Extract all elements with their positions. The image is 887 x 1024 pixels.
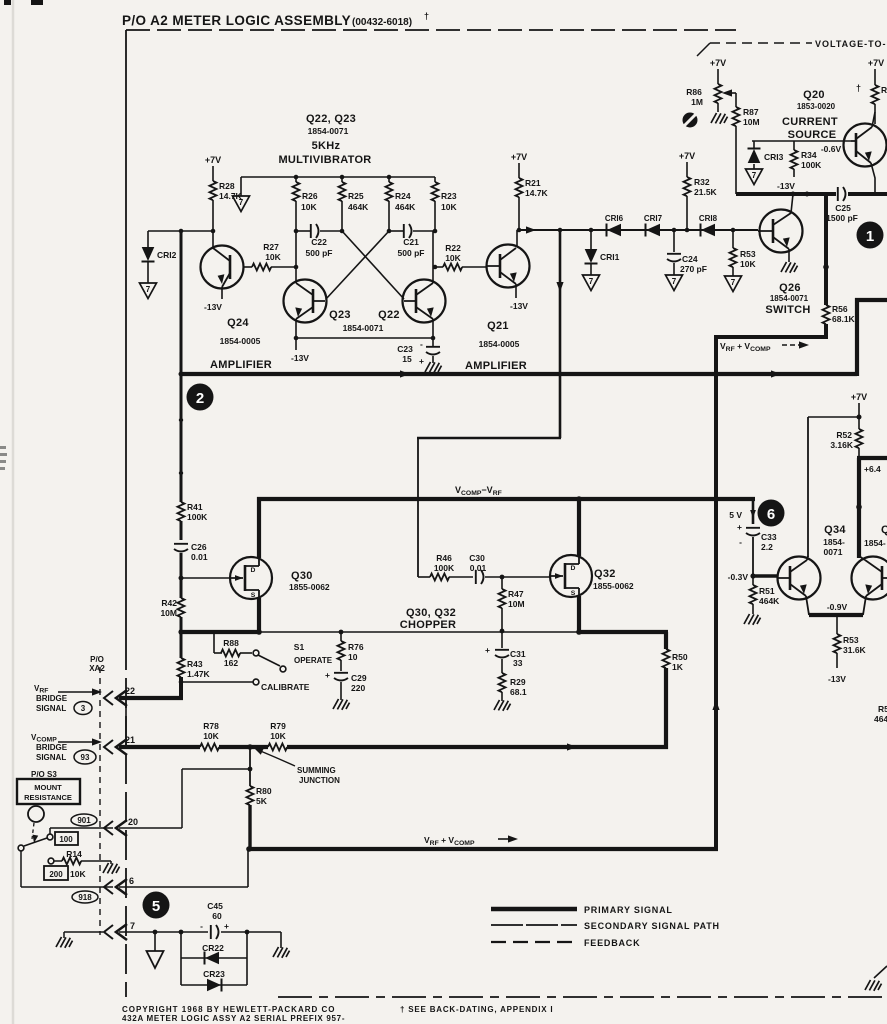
svg-text:1.47K: 1.47K [187, 669, 211, 679]
svg-text:10K: 10K [441, 202, 457, 212]
svg-text:D: D [571, 565, 576, 572]
wire: pin22 to trunk (primary) [119, 696, 183, 700]
wire: secondary corner to chopper input [417, 437, 561, 440]
svg-text:R26: R26 [302, 191, 318, 201]
svg-text:R53: R53 [740, 249, 756, 259]
svg-text:270 pF: 270 pF [680, 264, 707, 274]
100 box [55, 832, 78, 845]
diode CRI6 [607, 224, 622, 237]
transistor Q35 (partial at edge) [852, 556, 887, 615]
svg-text:R: R [881, 85, 887, 95]
diode CRI2 [147, 231, 149, 247]
svg-text:C21: C21 [403, 237, 419, 247]
svg-text:CRI6: CRI6 [605, 214, 624, 223]
ground (R29) [494, 700, 511, 711]
svg-text:-0.9V: -0.9V [827, 602, 848, 612]
resistor R56 [823, 305, 830, 324]
ground triangle 7 (C24) [666, 275, 683, 291]
svg-text:C24: C24 [682, 254, 698, 264]
svg-text:R22: R22 [445, 243, 461, 253]
svg-text:+7V: +7V [868, 58, 884, 68]
svg-text:CR23: CR23 [203, 969, 225, 979]
svg-text:33: 33 [513, 658, 523, 668]
node junction dots [179, 229, 184, 234]
svg-text:R50: R50 [672, 652, 688, 662]
arrow up on feedback line [712, 700, 719, 710]
svg-text:0.01: 0.01 [470, 563, 487, 573]
svg-text:1854-: 1854- [864, 538, 886, 548]
svg-text:S: S [571, 590, 576, 597]
oval (918) [72, 891, 98, 903]
svg-text:Q24: Q24 [227, 317, 249, 329]
svg-text:COPYRIGHT 1968 BY HEWLETT-PACK: COPYRIGHT 1968 BY HEWLETT-PACKARD CO [122, 1005, 336, 1014]
wire: corner to x=716 [714, 335, 828, 339]
svg-text:Q20: Q20 [803, 89, 825, 101]
capacitor C29 [334, 673, 348, 681]
svg-text:C30: C30 [469, 553, 485, 563]
transistor Q23 [284, 231, 327, 338]
transistor Q24 [201, 231, 244, 299]
svg-text:SIGNAL: SIGNAL [36, 753, 66, 762]
svg-text:21: 21 [125, 735, 135, 745]
diode CRI3 [753, 141, 755, 149]
signal arrow into pin 22 [58, 691, 92, 693]
svg-text:C26: C26 [191, 542, 207, 552]
svg-text:R76: R76 [348, 642, 364, 652]
transistor Q21 [486, 230, 530, 298]
svg-text:21.5K: 21.5K [694, 187, 718, 197]
svg-text:1854-0071: 1854-0071 [343, 323, 384, 333]
wire: base row y=141 [752, 140, 851, 142]
capacitor C25 [838, 187, 846, 201]
svg-text:R23: R23 [441, 191, 457, 201]
svg-text:CURRENT: CURRENT [782, 116, 838, 128]
connector dashed line [99, 667, 101, 935]
svg-text:1855-0062: 1855-0062 [593, 581, 634, 591]
wire: VCOMP-VRF bus (primary) [257, 497, 755, 501]
svg-text:162: 162 [224, 658, 238, 668]
svg-text:464: 464 [874, 714, 887, 724]
svg-text:Q22: Q22 [378, 309, 400, 321]
svg-text:Q30, Q32: Q30, Q32 [406, 607, 456, 619]
svg-text:+: + [419, 356, 424, 366]
wire: Q34 base (thick) [752, 574, 778, 577]
resistor R22 [433, 265, 438, 270]
resistor R76 [340, 632, 342, 641]
wire: down to R50 (primary) [664, 632, 668, 649]
wire: thick +6.4 rail from right [857, 456, 887, 460]
pin 6 chevrons [104, 879, 127, 895]
wire: pin20 [50, 827, 113, 829]
svg-text:R80: R80 [256, 786, 272, 796]
svg-text:CHOPPER: CHOPPER [400, 619, 457, 631]
switch S3 wiper [18, 845, 24, 851]
svg-text:5: 5 [152, 898, 160, 915]
svg-text:10K: 10K [265, 252, 281, 262]
svg-text:R24: R24 [395, 191, 411, 201]
potentiometer S3 circle [28, 806, 44, 822]
svg-text:5KHz: 5KHz [312, 140, 341, 152]
resistor R46 [418, 576, 430, 578]
svg-text:Q22, Q23: Q22, Q23 [306, 113, 356, 125]
wire: pin 7 row [119, 931, 208, 933]
svg-text:31.6K: 31.6K [843, 645, 867, 655]
svg-text:100K: 100K [801, 160, 822, 170]
svg-text:R34: R34 [801, 150, 817, 160]
pin 7 chevrons [104, 924, 127, 940]
svg-text:-13V: -13V [777, 181, 795, 191]
svg-text:S1: S1 [294, 642, 305, 652]
svg-text:R5: R5 [878, 704, 887, 714]
svg-text:6: 6 [767, 506, 775, 523]
svg-text:10M: 10M [743, 117, 760, 127]
svg-text:R42: R42 [161, 598, 177, 608]
svg-text:+7V: +7V [679, 151, 695, 161]
svg-text:1854-0005: 1854-0005 [220, 336, 261, 346]
svg-text:-: - [200, 921, 203, 931]
svg-text:R43: R43 [187, 659, 203, 669]
svg-text:MOUNT: MOUNT [34, 783, 62, 792]
pin 21 chevrons [104, 739, 127, 755]
resistor R27 [243, 266, 252, 268]
svg-text:-13V: -13V [291, 353, 309, 363]
CR22/CR23 loop [180, 932, 182, 985]
resistor R23 [434, 177, 436, 182]
svg-text:C45: C45 [207, 901, 223, 911]
multivibrator emitter bus wire [296, 337, 433, 339]
resistor R53 (10K) [732, 230, 734, 248]
ground (C29) [333, 699, 350, 710]
svg-text:MULTIVIBRATOR: MULTIVIBRATOR [278, 154, 371, 166]
cross-coupling wire D1 [326, 231, 389, 299]
200 box [44, 866, 68, 880]
svg-text:R41: R41 [187, 502, 203, 512]
svg-text:10K: 10K [740, 259, 756, 269]
svg-text:FEEDBACK: FEEDBACK [584, 938, 640, 948]
capacitor C21 [389, 230, 404, 232]
wire: VRF+VCOMP return (primary) [248, 847, 718, 851]
resistor R42 [178, 598, 185, 617]
resistor R41 [178, 502, 185, 521]
svg-text:CALIBRATE: CALIBRATE [261, 682, 310, 692]
resistor R53 (31.6K) [836, 615, 838, 634]
svg-text:†: † [856, 83, 861, 93]
svg-text:100K: 100K [187, 512, 208, 522]
svg-text:R78: R78 [203, 721, 219, 731]
assembly border bottom dashed [278, 996, 887, 998]
svg-text:14.7K: 14.7K [525, 188, 549, 198]
diode CR22 [181, 957, 247, 959]
svg-text:5K: 5K [256, 796, 268, 806]
scan artifact: left edge bars [0, 446, 7, 470]
VOLTAGE-TO banner dashed line [710, 42, 812, 44]
svg-text:C23: C23 [397, 344, 413, 354]
svg-text:0071: 0071 [824, 547, 843, 557]
wire: drop from VCOMP-VRF bus [752, 497, 755, 524]
svg-text:+7V: +7V [851, 392, 867, 402]
top rail wire [241, 176, 435, 178]
svg-text:C25: C25 [835, 203, 851, 213]
ground (Q26 emitter) [781, 262, 798, 273]
svg-text:R25: R25 [348, 191, 364, 201]
svg-text:R27: R27 [263, 242, 279, 252]
svg-text:22: 22 [125, 686, 135, 696]
svg-text:+7V: +7V [710, 58, 726, 68]
svg-text:+6.4: +6.4 [864, 464, 881, 474]
pin 22 chevrons [104, 690, 127, 706]
numbered node 6 [758, 500, 785, 527]
wire: wiper to pin 6 [20, 851, 22, 887]
resistor R21 [516, 178, 523, 197]
ground (pin 7 right) [280, 932, 282, 948]
wire: gate [181, 577, 230, 579]
svg-text:-0.6V: -0.6V [821, 144, 842, 154]
assembly border left [125, 30, 127, 640]
svg-text:1500 pF: 1500 pF [826, 213, 858, 223]
svg-text:7: 7 [130, 921, 135, 931]
pin 20 chevrons [104, 820, 127, 836]
signal arrow into pin 21 [58, 741, 92, 743]
svg-text:R56: R56 [832, 304, 848, 314]
svg-text:901: 901 [77, 816, 91, 825]
diode CRI1 [590, 230, 592, 249]
svg-text:C29: C29 [351, 673, 367, 683]
resistor R34 [793, 141, 795, 150]
svg-text:10M: 10M [508, 599, 525, 609]
ground triangle 7 (CRI3) [746, 169, 763, 185]
svg-text:SOURCE: SOURCE [788, 129, 837, 141]
svg-text:R52: R52 [836, 430, 852, 440]
transistor Q26 [758, 194, 803, 262]
FET Q30 [230, 557, 272, 599]
capacitor C45 [211, 925, 219, 939]
svg-text:-13V: -13V [510, 301, 528, 311]
svg-text:SIGNAL: SIGNAL [36, 704, 66, 713]
svg-text:+: + [737, 522, 742, 532]
numbered node 2 [187, 384, 214, 411]
capacitor C22 [296, 230, 311, 232]
svg-text:1853-0020: 1853-0020 [797, 102, 836, 111]
svg-text:SWITCH: SWITCH [765, 304, 810, 316]
VOLTAGE-TO banner leader [697, 43, 710, 56]
svg-text:CRI1: CRI1 [600, 252, 620, 262]
screwdriver adjust symbol [683, 113, 698, 128]
svg-text:0.01: 0.01 [191, 552, 208, 562]
ground triangle 7 (CRI2) [140, 283, 157, 299]
legend primary sample [491, 907, 577, 911]
svg-text:(00432-6018): (00432-6018) [352, 17, 412, 28]
wire [212, 200, 214, 231]
svg-text:500 pF: 500 pF [306, 248, 333, 258]
numbered node 1 [857, 222, 884, 249]
scan artifact: page edge line [12, 0, 15, 1024]
diode CR23 [181, 984, 247, 986]
svg-text:Q26: Q26 [779, 282, 801, 294]
svg-text:CRI2: CRI2 [157, 250, 177, 260]
svg-text:+: + [325, 670, 330, 680]
resistor R88 [213, 632, 215, 653]
svg-text:R29: R29 [510, 677, 526, 687]
ground triangle 7 (multivibrator rail) [233, 196, 250, 212]
summing junction callout [258, 750, 295, 766]
svg-text:C22: C22 [311, 237, 327, 247]
svg-text:464K: 464K [348, 202, 369, 212]
svg-text:10M: 10M [160, 608, 177, 618]
svg-text:100: 100 [59, 835, 73, 844]
svg-text:10: 10 [348, 652, 358, 662]
FET Q32 [550, 555, 592, 597]
svg-text:-13V: -13V [828, 674, 846, 684]
svg-text:5 V: 5 V [729, 510, 742, 520]
svg-text:R32: R32 [694, 177, 710, 187]
wire: Q30 source (primary) [257, 598, 261, 634]
diode CRI8 [701, 224, 716, 237]
svg-text:100K: 100K [434, 563, 455, 573]
wire: pin 6 to feedback line [119, 886, 248, 888]
svg-text:1K: 1K [672, 662, 684, 672]
assembly border top dashed [126, 29, 736, 31]
svg-text:R88: R88 [223, 638, 239, 648]
mechanical linkage (dashed) [32, 823, 34, 839]
svg-text:2.2: 2.2 [761, 542, 773, 552]
svg-text:R79: R79 [270, 721, 286, 731]
resistor R47 [501, 577, 503, 589]
legend feedback sample [491, 941, 577, 943]
svg-text:R21: R21 [525, 178, 541, 188]
svg-text:SUMMING: SUMMING [297, 766, 336, 775]
transistor Q22 [403, 231, 446, 338]
svg-text:† SEE BACK-DATING, APPENDIX I: † SEE BACK-DATING, APPENDIX I [400, 1005, 553, 1014]
svg-text:+: + [224, 921, 229, 931]
R14 row: contact [48, 858, 54, 864]
svg-text:Q30: Q30 [291, 570, 313, 582]
wire: Q32 source (primary) [577, 596, 581, 634]
resistor R28 [210, 181, 217, 200]
svg-text:60: 60 [212, 911, 222, 921]
oval (93) [74, 750, 96, 764]
svg-text:1854-0005: 1854-0005 [479, 339, 520, 349]
MOUNT RESISTANCE box [17, 779, 80, 804]
oval (3) [74, 702, 92, 715]
resistor (right edge, partial) [872, 85, 879, 104]
svg-text:-: - [739, 537, 742, 547]
svg-text:+7V: +7V [511, 152, 527, 162]
svg-text:1: 1 [866, 228, 874, 245]
svg-text:10K: 10K [445, 253, 461, 263]
svg-text:3: 3 [81, 704, 86, 713]
potentiometer R86 [715, 84, 722, 103]
diode CRI7 [646, 224, 661, 237]
resistor R80 [249, 747, 251, 786]
resistor R51 [752, 576, 754, 585]
svg-text:200: 200 [49, 870, 63, 879]
wire: Q21 collector row to Q26 base [517, 229, 758, 231]
bottom right ground [874, 966, 887, 978]
svg-text:68.1: 68.1 [510, 687, 527, 697]
svg-text:R86: R86 [686, 87, 702, 97]
wire: long thick vertical x=716 [714, 335, 718, 851]
resistor R50 [663, 649, 670, 668]
resistor R24 [388, 177, 390, 182]
scan artifact: top corner marks [31, 0, 43, 5]
svg-text:464K: 464K [395, 202, 416, 212]
open triangle (pin 7) [154, 932, 156, 951]
-13V stub [295, 338, 297, 350]
calibrate contact [181, 681, 253, 683]
svg-text:AMPLIFIER: AMPLIFIER [465, 360, 527, 372]
svg-text:918: 918 [78, 893, 92, 902]
svg-text:Q21: Q21 [487, 320, 509, 332]
ground (R86 bottom) [711, 113, 728, 124]
capacitor C26 [174, 544, 188, 552]
svg-text:68.1K: 68.1K [832, 314, 856, 324]
resistor R79 [268, 744, 287, 751]
svg-text:432A METER LOGIC ASSY A2 SERIA: 432A METER LOGIC ASSY A2 SERIAL PREFIX 9… [122, 1014, 345, 1023]
oval (901) [71, 814, 97, 826]
resistor R43 [178, 658, 185, 677]
svg-text:PRIMARY SIGNAL: PRIMARY SIGNAL [584, 905, 673, 915]
svg-text:D: D [251, 567, 256, 574]
capacitor C31 [501, 631, 503, 648]
wire: Q32 drain (primary) [577, 499, 581, 556]
ground (pin 7 left) [64, 931, 103, 933]
svg-text:Q34: Q34 [824, 524, 846, 536]
ground (R51) [744, 614, 761, 625]
svg-text:†: † [424, 11, 429, 21]
svg-text:OPERATE: OPERATE [294, 656, 333, 665]
svg-text:P/O S3: P/O S3 [31, 770, 57, 779]
svg-text:220: 220 [351, 683, 365, 693]
svg-text:CRI8: CRI8 [699, 214, 718, 223]
resistor R52 [858, 417, 860, 429]
svg-text:3.16K: 3.16K [830, 440, 854, 450]
wire: pin21 summing line (primary) [119, 745, 200, 749]
svg-text:XA2: XA2 [89, 664, 105, 673]
svg-text:P/O: P/O [90, 655, 104, 664]
transistor Q20 [844, 112, 887, 194]
svg-text:R47: R47 [508, 589, 524, 599]
svg-text:VOLTAGE-TO-: VOLTAGE-TO- [815, 39, 887, 49]
svg-text:-: - [420, 339, 423, 349]
wire: emitter bus (thick) [809, 613, 863, 617]
resistor R26 [295, 177, 297, 182]
R86 wiper arrow [722, 89, 732, 96]
svg-text:-0.3V: -0.3V [728, 572, 749, 582]
resistor R78 [200, 744, 219, 751]
svg-text:C33: C33 [761, 532, 777, 542]
numbered node 5 [143, 892, 170, 919]
capacitor C30 [476, 570, 484, 584]
resistor R14 [62, 858, 81, 865]
capacitor C23 [432, 338, 434, 346]
svg-text:CRI7: CRI7 [644, 214, 663, 223]
svg-text:BRIDGE: BRIDGE [36, 743, 68, 752]
ground triangle 7 (R53) [725, 276, 742, 292]
svg-text:P/O A2 METER LOGIC ASSEMBLY: P/O A2 METER LOGIC ASSEMBLY [122, 13, 351, 28]
svg-text:BRIDGE: BRIDGE [36, 694, 68, 703]
svg-text:1854-0071: 1854-0071 [770, 294, 809, 303]
svg-text:R53: R53 [843, 635, 859, 645]
svg-text:CR22: CR22 [202, 943, 224, 953]
ground (R14) [103, 863, 120, 874]
svg-text:93: 93 [81, 753, 90, 762]
svg-text:464K: 464K [759, 596, 780, 606]
wire node row y=231 [148, 230, 214, 232]
svg-text:-13V: -13V [204, 302, 222, 312]
legend secondary sample [491, 924, 577, 926]
svg-text:1M: 1M [691, 97, 703, 107]
svg-text:RESISTANCE: RESISTANCE [24, 793, 72, 802]
